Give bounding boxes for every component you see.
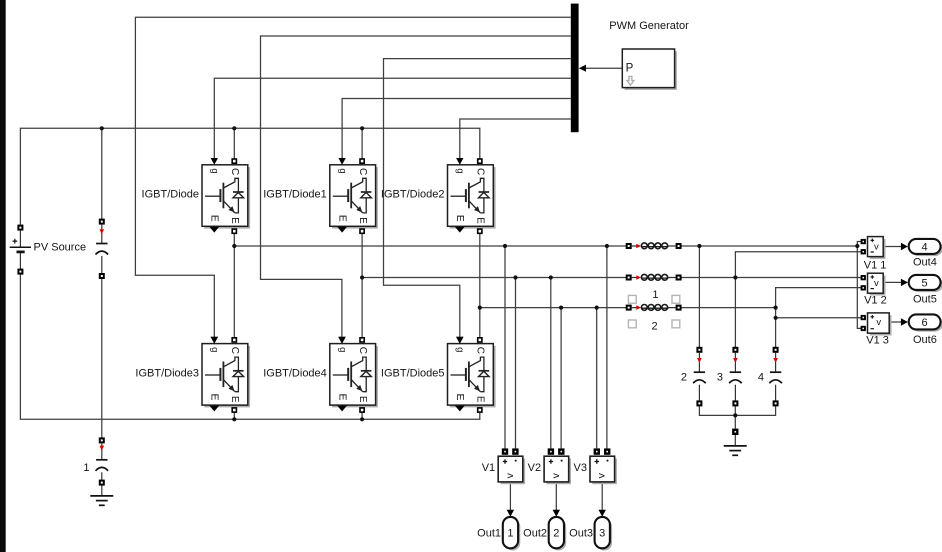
demux bar	[571, 4, 579, 133]
wire V3 output to Out3	[601, 482, 603, 510]
junction phase A capacitor2 tap	[697, 244, 701, 248]
wire gate1 from demux to IGBT/Diode3 gate	[135, 17, 570, 337]
junction bottom bus IGBT/Diode4	[360, 417, 364, 421]
wire phase C up to V1 2 minus	[776, 288, 861, 308]
svg-text:1: 1	[507, 528, 513, 540]
svg-text:PV Source: PV Source	[34, 241, 87, 253]
svg-text:PWM Generator: PWM Generator	[609, 20, 689, 32]
arrowhead V2 to Out2	[553, 510, 560, 517]
svg-text:Out2: Out2	[523, 527, 547, 539]
arrowhead PWM to demux	[579, 65, 586, 72]
voltage measurement V1 2	[862, 273, 886, 295]
wire tap phase C to V2 minus	[560, 308, 562, 449]
svg-text:V1 3: V1 3	[866, 335, 889, 347]
svg-text:V1 2: V1 2	[864, 295, 887, 307]
svg-text:Out4: Out4	[913, 257, 937, 269]
svg-text:IGBT/Diode4: IGBT/Diode4	[263, 368, 327, 380]
wire phase B down to capacitor3	[734, 278, 736, 348]
svg-text:3: 3	[599, 528, 605, 540]
junction bottom bus IGBT/Diode3	[232, 417, 236, 421]
svg-text:Out6: Out6	[913, 334, 937, 346]
wire IGBT/Diode3 emitter to bus	[233, 412, 235, 419]
svg-text:4: 4	[758, 371, 764, 383]
svg-text:2: 2	[553, 528, 559, 540]
ground left	[90, 496, 113, 505]
wire tap phase C to V3 plus	[596, 308, 598, 449]
wire V1 output to Out1	[509, 482, 511, 510]
wire DC negative bottom bus	[20, 274, 479, 419]
wire V1 2 output to Out5	[883, 281, 901, 283]
wire phase C down to capacitor4	[775, 308, 777, 348]
PWM Generator block	[622, 49, 677, 90]
voltage measurement V2	[544, 450, 571, 485]
svg-text:V2: V2	[528, 462, 541, 474]
outport Out4	[909, 239, 942, 256]
wire V1 3 output to Out6	[889, 321, 901, 323]
wire bus branch to capacitor branch	[101, 128, 103, 219]
svg-text:1: 1	[83, 462, 89, 474]
wire phase C line	[480, 307, 776, 309]
svg-text:v: v	[876, 317, 881, 328]
junction phase B V1 tap	[513, 275, 517, 279]
wire V1 1 output to Out4	[883, 246, 901, 248]
capacitor C4	[769, 348, 782, 406]
wire gate5 from demux to IGBT/Diode1 gate	[342, 99, 571, 159]
junction phase C capacitor4 tap	[774, 306, 778, 310]
IGBT/Diode3 block U4	[202, 337, 250, 412]
svg-text:V3: V3	[574, 462, 587, 474]
wire tap phase A to V3 minus	[606, 246, 608, 448]
outport Out6	[909, 314, 942, 331]
junction phase B capacitor3 tap	[733, 275, 737, 279]
ground right	[724, 446, 747, 455]
outport Out2	[549, 517, 567, 551]
voltage measurement V1 1	[862, 237, 886, 259]
capacitor C1 series to ground	[96, 438, 109, 484]
wire bus branch to IGBT/Diode1 collector	[361, 128, 363, 159]
svg-text:IGBT/Diode2: IGBT/Diode2	[381, 189, 445, 201]
junction phase C V2 tap	[559, 306, 563, 310]
svg-text:5: 5	[922, 277, 928, 289]
junction phase B emitter	[360, 275, 364, 279]
junction phase B V2 tap	[549, 275, 553, 279]
svg-text:v: v	[874, 278, 879, 289]
outport Out3	[595, 517, 613, 551]
arrowhead gate2 into IGBT/Diode4	[338, 337, 345, 344]
wire V2 output to Out2	[555, 482, 557, 510]
svg-text:IGBT/Diode3: IGBT/Diode3	[135, 368, 199, 380]
junction bus IGBT/Diode1 collector	[360, 126, 364, 130]
wire tap phase A to V1 plus	[504, 246, 506, 448]
wire bus branch to IGBT/Diode collector	[233, 128, 235, 159]
voltage measurement V1	[498, 450, 525, 485]
svg-text:P: P	[626, 62, 634, 74]
wire phase B line	[362, 277, 861, 279]
junction phase C V3 tap	[595, 306, 599, 310]
wire phase A vertical	[233, 234, 235, 338]
IGBT/Diode4 block U5	[330, 337, 378, 412]
IGBT/Diode5 block U6	[448, 337, 496, 412]
wire capacitor branch to series capacitor 1	[101, 279, 103, 438]
left window edge bar	[0, 0, 6, 552]
arrowhead gate3 into IGBT/Diode5	[456, 337, 463, 344]
wire V1 3 minus to phase A	[857, 246, 861, 328]
wire phase A line	[234, 242, 861, 247]
arrowhead gate1 into IGBT/Diode3	[211, 337, 218, 344]
inductor phase A	[627, 243, 681, 249]
wire phase C to V1 3 plus	[776, 317, 862, 319]
outport Out1	[503, 517, 521, 551]
inductor phase B	[627, 274, 681, 280]
svg-text:IGBT/Diode: IGBT/Diode	[142, 189, 199, 201]
wire IGBT/Diode4 emitter to bus	[361, 412, 363, 419]
capacitor parallel branch	[96, 220, 109, 278]
wire capacitor1 to ground	[101, 485, 103, 496]
junction capacitor ground bus	[733, 413, 737, 417]
junction capacitor4 V1 3 tap	[774, 316, 778, 320]
junction bus IGBT/Diode collector	[232, 126, 236, 130]
wire DC positive bus	[20, 128, 479, 225]
svg-text:3: 3	[717, 371, 723, 383]
voltage measurement V3	[590, 450, 617, 485]
arrowhead V1 2 to Out5	[901, 279, 908, 286]
selection handles inductor phase C	[628, 295, 679, 327]
ground terminal square right	[733, 430, 737, 434]
IGBT/Diode1 block U2	[330, 158, 378, 233]
capacitor C3	[729, 348, 742, 406]
svg-text:Out3: Out3	[569, 527, 593, 539]
wire gate4 from demux to IGBT/Diode gate	[214, 78, 571, 158]
wire phase A to capacitor2	[698, 246, 700, 347]
svg-text:IGBT/Diode5: IGBT/Diode5	[381, 368, 445, 380]
arrowhead V1 to Out1	[507, 510, 514, 517]
svg-text:6: 6	[922, 317, 928, 329]
arrowhead V1 3 to Out6	[901, 318, 908, 325]
IGBT/Diode block U1	[202, 158, 250, 233]
svg-text:2: 2	[651, 320, 657, 332]
svg-text:4: 4	[922, 241, 928, 253]
PV Source battery	[10, 226, 31, 274]
IGBT/Diode2 block U3	[448, 158, 496, 233]
arrowhead V3 to Out3	[599, 510, 606, 517]
svg-text:2: 2	[681, 371, 687, 383]
svg-text:Out5: Out5	[913, 293, 937, 305]
junction phase A V3 tap	[605, 244, 609, 248]
capacitor C2	[693, 348, 706, 406]
wire phase B vertical	[361, 234, 363, 338]
wire tap phase B to V1 minus	[515, 278, 517, 449]
wire gate3 from demux to IGBT/Diode5 gate	[384, 59, 571, 338]
voltage measurement V1 3	[862, 313, 892, 336]
wire capacitor bottom bus to ground	[699, 406, 775, 446]
wire PWM generator output to demux	[586, 67, 623, 69]
junction phase A V1 3 tap	[855, 244, 859, 248]
svg-text:V1: V1	[482, 462, 495, 474]
svg-text:Out1: Out1	[477, 527, 501, 539]
svg-text:1: 1	[652, 289, 658, 301]
junction phase A V1 tap	[503, 244, 507, 248]
wire gate2 from demux to IGBT/Diode4 gate	[261, 36, 571, 337]
junction phase C emitter	[478, 306, 482, 310]
svg-text:IGBT/Diode1: IGBT/Diode1	[263, 189, 327, 201]
wire phase B up to V1 1 minus	[735, 252, 861, 278]
svg-text:V1 1: V1 1	[864, 260, 887, 272]
inductor phase C	[627, 305, 681, 311]
arrowhead V1 1 to Out4	[901, 243, 908, 250]
svg-text:v: v	[874, 241, 879, 252]
junction bus capacitor branch	[100, 126, 104, 130]
wire gate6 from demux to IGBT/Diode2 gate	[460, 119, 571, 158]
junction phase A emitter	[232, 244, 236, 248]
wire phase C vertical	[479, 234, 481, 338]
wire tap phase B to V2 plus	[550, 278, 552, 449]
outport Out5	[909, 275, 942, 292]
